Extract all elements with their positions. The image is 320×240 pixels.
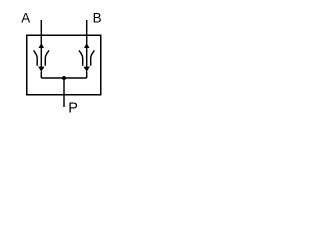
svg-text:P: P <box>68 100 78 116</box>
svg-text:B: B <box>93 10 102 25</box>
svg-text:A: A <box>21 10 30 25</box>
